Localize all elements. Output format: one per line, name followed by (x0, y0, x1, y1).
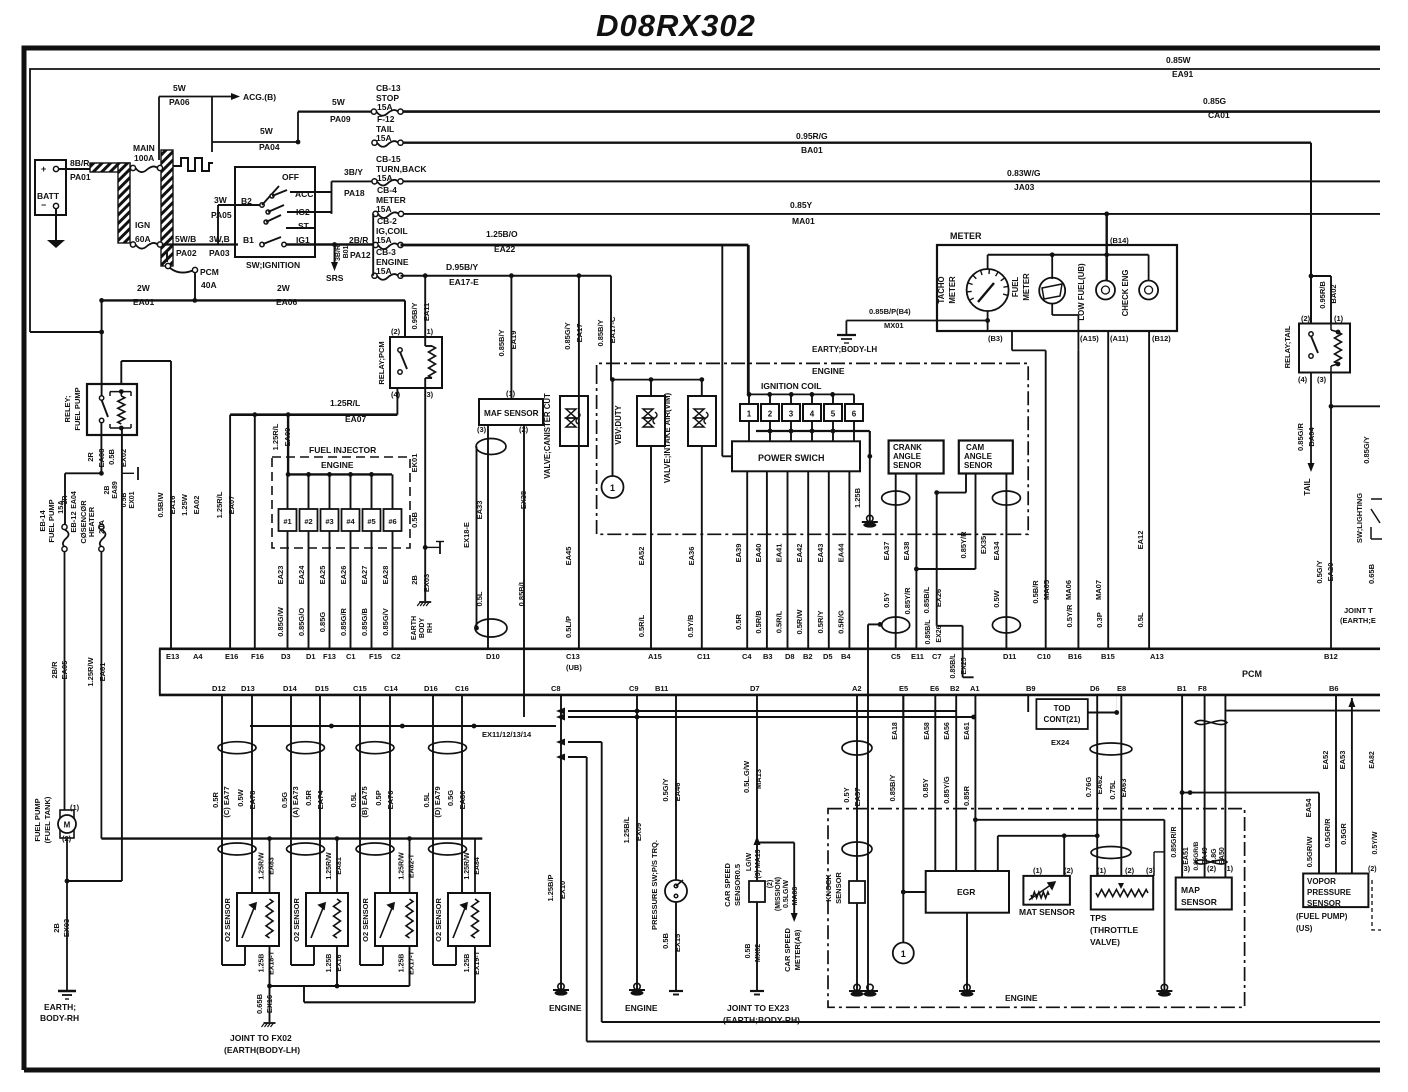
wire B6 EA52 to vapor sensor (1335, 695, 1337, 874)
wire C9 1.25B/L EX09 to engine ground (636, 695, 638, 990)
power switch box POWER SWICH (732, 441, 860, 471)
wire EA22 vertical to ignition coil (747, 245, 750, 394)
svg-text:0.5Y/B: 0.5Y/B (686, 614, 695, 638)
svg-text:EA40: EA40 (754, 544, 763, 563)
svg-text:EX18-T: EX18-T (269, 950, 276, 974)
svg-text:B15: B15 (1101, 652, 1115, 661)
svg-text:EX16: EX16 (265, 995, 274, 1013)
svg-text:1.25B: 1.25B (399, 954, 406, 973)
svg-text:0.5R/G: 0.5R/G (836, 610, 845, 634)
svg-text:EA80: EA80 (458, 791, 467, 810)
svg-text:(B14): (B14) (1110, 236, 1129, 245)
svg-text:3R: 3R (62, 496, 69, 505)
wire car speed branch to meter MA08 (757, 842, 794, 844)
wire 0.95R/G BA01 (401, 141, 1312, 143)
svg-text:EA51: EA51 (1183, 847, 1190, 865)
svg-text:EARTH: EARTH (411, 616, 418, 640)
svg-text:1.25B/P: 1.25B/P (546, 874, 555, 901)
svg-text:0.85G/Y: 0.85G/Y (563, 322, 572, 350)
wire 0.5B MX02 to ground (756, 902, 758, 991)
wire knock shield to ground (878, 622, 883, 627)
svg-text:EA28: EA28 (381, 566, 390, 585)
svg-text:2W: 2W (137, 283, 151, 293)
wire 5W PA06 to ACG (158, 97, 160, 161)
wire 1.25R/L drop to F16 (254, 415, 256, 649)
wire A15 to B16 MA06 (1077, 350, 1079, 648)
svg-text:D16: D16 (424, 684, 438, 693)
svg-text:5W/B: 5W/B (175, 234, 196, 244)
wire 0.85G CA01 (401, 110, 1381, 113)
svg-text:(EARTH;BODY-RH): (EARTH;BODY-RH) (723, 1015, 800, 1025)
twisted pair symbol top (1195, 720, 1227, 724)
svg-text:0.5G/Y: 0.5G/Y (1315, 560, 1324, 583)
wire EA17 through canister valve to C13 (578, 276, 580, 649)
svg-text:B3: B3 (763, 652, 773, 661)
svg-text:0.85W: 0.85W (1166, 55, 1192, 65)
svg-text:EX18-E: EX18-E (462, 522, 471, 548)
svg-text:(FUEL PUMP): (FUEL PUMP) (1296, 912, 1348, 921)
wire 0.83W/G JA03 (401, 180, 1381, 182)
svg-text:RH: RH (427, 623, 434, 633)
svg-text:(3): (3) (1317, 375, 1327, 384)
TOD CONT box (1036, 699, 1087, 729)
svg-text:B2: B2 (803, 652, 813, 661)
wire MAF pin2 EX38 0.85B/L (523, 425, 525, 717)
wire O2 heater ground 1.25B (409, 946, 411, 986)
svg-text:(1): (1) (1224, 864, 1234, 873)
svg-text:D10: D10 (486, 652, 500, 661)
svg-text:(3): (3) (1146, 866, 1156, 875)
svg-text:EA37: EA37 (882, 542, 891, 561)
wire IG1 output 2B/R PA12 to CB-2 (286, 243, 376, 246)
svg-text:40A: 40A (201, 280, 217, 290)
svg-text:EA02: EA02 (192, 496, 201, 515)
svg-text:A15: A15 (648, 652, 662, 661)
svg-text:RELAY;PCM: RELAY;PCM (377, 341, 386, 384)
svg-text:0.5L/P: 0.5L/P (564, 616, 573, 638)
svg-text:0.5L.G/W: 0.5L.G/W (742, 760, 751, 793)
svg-text:ENGINE: ENGINE (812, 366, 845, 376)
svg-text:0.5Y: 0.5Y (882, 592, 891, 607)
svg-text:EA17-C: EA17-C (608, 316, 617, 343)
svg-text:EA43: EA43 (816, 544, 825, 563)
svg-text:60A: 60A (135, 234, 151, 244)
wire O2 heater feed (409, 839, 411, 893)
wire junction fuel pump to bundle riser (65, 879, 70, 884)
switch PRESSURE SW;P/S TRQ (665, 880, 687, 902)
svg-text:JOINT TO EX23: JOINT TO EX23 (727, 1003, 789, 1013)
svg-text:EA09: EA09 (283, 428, 292, 447)
sensor VAPOR PRESSURE SENSOR box (1303, 874, 1368, 908)
svg-text:EA49: EA49 (1202, 847, 1209, 865)
svg-text:B6: B6 (1329, 684, 1339, 693)
svg-text:MAF SENSOR: MAF SENSOR (484, 409, 539, 418)
svg-text:METER(A8): METER(A8) (793, 929, 802, 970)
svg-text:0.5GR/W: 0.5GR/W (1305, 836, 1314, 868)
wire IG2 output (287, 211, 332, 213)
wire O2 heater feed (474, 839, 476, 893)
svg-text:C7: C7 (932, 652, 942, 661)
svg-text:(EARTH(BODY-LH): (EARTH(BODY-LH) (224, 1045, 300, 1055)
switch contacts B2 (260, 203, 264, 207)
svg-text:VBV;DUTY: VBV;DUTY (614, 404, 623, 444)
svg-text:HEATER: HEATER (87, 506, 96, 537)
svg-text:F-12: F-12 (377, 114, 395, 124)
svg-text:EB-14: EB-14 (38, 510, 47, 532)
svg-text:0.85G/B: 0.85G/B (360, 607, 369, 636)
svg-text:1.25B: 1.25B (853, 487, 862, 508)
svg-text:MAIN: MAIN (133, 143, 155, 153)
wire cam shield join EX35 (916, 568, 975, 570)
svg-text:1.25R/W: 1.25R/W (399, 852, 406, 880)
svg-text:1.25R/W: 1.25R/W (326, 852, 333, 880)
wire relay(3) EK01 0.5B down (424, 388, 426, 547)
svg-text:0.5R/B: 0.5R/B (754, 610, 763, 634)
wire 1.25B/O EA22 (401, 244, 749, 247)
svg-text:0.85G/O: 0.85G/O (297, 608, 306, 637)
wire to EGR 2 (955, 695, 957, 871)
svg-text:POWER SWICH: POWER SWICH (758, 453, 825, 463)
svg-text:EX26: EX26 (934, 589, 943, 607)
svg-text:0.5W: 0.5W (992, 589, 1001, 607)
wire 0.65B EX16 to joint ground (269, 986, 271, 1022)
svg-text:EA78: EA78 (248, 791, 257, 810)
earth tap EX02 (122, 472, 134, 474)
svg-text:0.5LG/W: 0.5LG/W (783, 880, 790, 908)
svg-text:B4: B4 (841, 652, 851, 661)
svg-text:CAM: CAM (966, 443, 985, 452)
svg-text:6: 6 (852, 410, 857, 419)
svg-text:0.85R: 0.85R (962, 785, 971, 806)
fuse EB-14 FUEL PUMP 15A (62, 524, 67, 529)
svg-text:SENSOR: SENSOR (1181, 897, 1217, 907)
wire D6 0.76G EA62 (1096, 695, 1098, 876)
svg-text:EA62: EA62 (1095, 776, 1104, 795)
wire 5W PA09 (297, 112, 299, 143)
wire 1.25R/W heater bus (101, 837, 482, 839)
svg-text:VALVE): VALVE) (1090, 937, 1120, 947)
svg-text:EA20: EA20 (1326, 563, 1335, 582)
svg-text:CHECK ENG: CHECK ENG (1121, 270, 1130, 317)
svg-text:SRS: SRS (326, 273, 344, 283)
coil common bus to ground (756, 430, 870, 432)
svg-text:2B/R: 2B/R (349, 235, 368, 245)
shield EX18-E ovals and drain (476, 439, 506, 455)
svg-text:EA04: EA04 (71, 491, 78, 509)
svg-text:3W,B: 3W,B (209, 234, 230, 244)
wire EA36 to C11 (701, 446, 703, 649)
svg-text:PA09: PA09 (330, 114, 351, 124)
svg-text:JA03: JA03 (1014, 182, 1035, 192)
wire O2 sensor signal return (221, 964, 223, 966)
sensor MAT SENSOR box (1023, 876, 1070, 905)
svg-text:2B: 2B (104, 486, 111, 495)
svg-text:EA22: EA22 (494, 244, 516, 254)
svg-text:0.85B/Y: 0.85B/Y (596, 319, 605, 346)
wire linking CB-4 and CB-3 inputs (372, 214, 374, 276)
svg-text:METER: METER (1022, 273, 1031, 301)
wire EA17-C down to engine box (610, 276, 612, 380)
svg-text:BA01: BA01 (801, 145, 823, 155)
wire TAIL output 0.85G/R BA04 (1310, 373, 1312, 467)
relay PCM internals (429, 346, 436, 378)
svg-text:EA84: EA84 (474, 857, 481, 875)
svg-text:EX38: EX38 (519, 491, 528, 509)
svg-text:PA05: PA05 (211, 210, 232, 220)
svg-text:EA83: EA83 (269, 857, 276, 875)
fuse EB-12 CONDENSER HEATER 20A (99, 524, 104, 529)
svg-text:O2 SENSOR: O2 SENSOR (434, 898, 443, 942)
svg-text:D7: D7 (750, 684, 760, 693)
svg-text:0.5B/R: 0.5B/R (1031, 580, 1040, 604)
svg-text:C8: C8 (551, 684, 561, 693)
svg-text:VOPOR: VOPOR (1307, 877, 1336, 886)
wire cam left pin EX26 0.85B/L (965, 474, 967, 493)
svg-text:METER: METER (950, 231, 982, 241)
svg-text:1: 1 (901, 949, 906, 959)
svg-text:F16: F16 (251, 652, 264, 661)
wire B12 to A13 EA12 0.5L (1148, 331, 1150, 649)
svg-text:EA25: EA25 (318, 566, 327, 585)
PCM top bus (159, 647, 1380, 650)
svg-text:0.5W: 0.5W (236, 788, 245, 806)
svg-text:(2): (2) (767, 880, 774, 889)
svg-text:FUEL PUMP: FUEL PUMP (73, 387, 82, 430)
svg-text:EX03: EX03 (62, 919, 71, 937)
svg-text:#3: #3 (325, 517, 333, 526)
svg-text:D15: D15 (315, 684, 329, 693)
svg-text:1.25B/O: 1.25B/O (486, 229, 518, 239)
wire 1.25R/L EA09 to injector bus (287, 415, 289, 475)
svg-text:20A: 20A (97, 520, 106, 534)
ground earth body LH (837, 334, 856, 336)
svg-text:EX19-T: EX19-T (474, 950, 481, 974)
svg-text:MAT SENSOR: MAT SENSOR (1019, 907, 1075, 917)
wire battery negative to ground (55, 208, 57, 240)
wire 3W PA05 into switch (218, 204, 260, 206)
svg-text:SENSOR: SENSOR (834, 872, 843, 904)
svg-text:1: 1 (610, 483, 615, 493)
svg-text:EA63: EA63 (1119, 779, 1128, 798)
svg-text:C5: C5 (891, 652, 901, 661)
svg-text:D08RX302: D08RX302 (596, 8, 756, 43)
svg-text:4: 4 (810, 410, 815, 419)
svg-text:PRESSURE SW;P/S TRQ.: PRESSURE SW;P/S TRQ. (650, 840, 659, 930)
svg-text:0.85B/L: 0.85B/L (925, 619, 932, 645)
O2 sensor box (306, 893, 348, 946)
O2 sensor box (237, 893, 279, 946)
svg-text:M: M (64, 821, 71, 830)
svg-text:EX16: EX16 (336, 954, 343, 971)
svg-text:O2 SENSOR: O2 SENSOR (223, 898, 232, 942)
svg-text:1.25R/W: 1.25R/W (259, 852, 266, 880)
svg-text:5W: 5W (173, 83, 187, 93)
svg-text:(C) EA77: (C) EA77 (222, 786, 231, 817)
svg-text:EX10: EX10 (558, 881, 567, 899)
wire relay(3) 0.5G/Y EA20 to B12 (1330, 373, 1332, 649)
svg-text:(B3): (B3) (988, 334, 1003, 343)
svg-text:MA06: MA06 (1064, 580, 1073, 600)
svg-text:0.65B: 0.65B (255, 993, 264, 1014)
svg-text:TPS: TPS (1090, 913, 1107, 923)
svg-text:EA39: EA39 (734, 544, 743, 563)
svg-text:ENGINE: ENGINE (625, 1003, 658, 1013)
svg-text:PCM: PCM (1242, 669, 1262, 679)
fuel injector dashed box ENGINE (272, 457, 410, 548)
wire 5W PA04 bus (211, 97, 213, 153)
svg-text:C15: C15 (353, 684, 367, 693)
svg-text:0.85Y: 0.85Y (790, 200, 813, 210)
svg-text:15A: 15A (376, 133, 392, 143)
O2 sensor column (359, 695, 361, 965)
svg-text:A2: A2 (852, 684, 862, 693)
svg-text:MAP: MAP (1181, 885, 1200, 895)
svg-text:EX09: EX09 (634, 823, 643, 841)
svg-text:B01: B01 (343, 245, 350, 258)
svg-text:0.5B: 0.5B (661, 932, 670, 948)
svg-text:VALVE;CANISTER CUT: VALVE;CANISTER CUT (543, 393, 552, 479)
svg-text:(2): (2) (1301, 314, 1311, 323)
svg-text:C11: C11 (697, 652, 710, 661)
svg-text:1: 1 (747, 410, 752, 419)
svg-text:PCM: PCM (200, 267, 219, 277)
relay RELAY;PCM box (390, 337, 442, 388)
svg-text:PA12: PA12 (350, 250, 371, 260)
svg-text:FUEL PUMP: FUEL PUMP (33, 798, 42, 841)
svg-text:C1: C1 (346, 652, 356, 661)
wire O2 heater feed (269, 839, 271, 893)
svg-text:#4: #4 (346, 517, 355, 526)
svg-text:1.25B: 1.25B (326, 954, 333, 973)
svg-text:(4): (4) (1298, 375, 1308, 384)
knock sensor box KNOCK SENSOR (849, 881, 865, 903)
svg-text:EA82-T: EA82-T (409, 853, 416, 878)
svg-text:0.85G/Y: 0.85G/Y (1362, 436, 1371, 464)
svg-text:3B/Y: 3B/Y (344, 167, 363, 177)
battery BATT (35, 160, 66, 215)
svg-text:BODY-RH: BODY-RH (40, 1013, 79, 1023)
svg-text:0.5Y/W: 0.5Y/W (1372, 831, 1379, 854)
svg-text:EA19: EA19 (509, 331, 518, 350)
svg-text:EA76: EA76 (386, 791, 395, 810)
svg-text:EA08: EA08 (97, 449, 106, 468)
svg-text:EA23: EA23 (276, 566, 285, 585)
wire 0.95B/Y EA11 (424, 276, 426, 337)
svg-text:EA44: EA44 (836, 543, 845, 563)
wire EA53 0.5GR with up arrow (1226, 710, 1380, 712)
svg-text:0.75L: 0.75L (1108, 780, 1117, 800)
EGR box (926, 871, 1009, 913)
svg-text:EX26: EX26 (936, 625, 943, 642)
wire bundle drop to bottom line 1 (601, 742, 603, 1022)
engine dashed box (sensors) (828, 809, 1245, 1008)
svg-text:EX02: EX02 (119, 449, 128, 467)
svg-text:OFF: OFF (282, 172, 299, 182)
svg-text:MA08: MA08 (792, 887, 799, 906)
wire MAT TPS link bus (998, 835, 1097, 837)
fusible link zigzag element (173, 158, 213, 171)
sensor MAP SENSOR wires (1181, 695, 1183, 878)
relay RELAY;TAIL box (1299, 324, 1350, 373)
svg-text:PA04: PA04 (259, 142, 280, 152)
svg-text:0.5L: 0.5L (1136, 612, 1145, 627)
svg-text:EARTH;: EARTH; (44, 1002, 76, 1012)
svg-text:D14: D14 (283, 684, 298, 693)
svg-text:1.25B/L: 1.25B/L (622, 816, 631, 843)
wire EA52 to A15 (650, 446, 652, 649)
wire B9 down (1027, 695, 1029, 712)
wire fuel pump to earth body RH (66, 838, 68, 991)
shield oval EX24 (1090, 743, 1132, 755)
svg-text:C9: C9 (629, 684, 639, 693)
svg-text:0.5L: 0.5L (422, 792, 431, 807)
svg-text:ENGINE: ENGINE (321, 460, 354, 470)
svg-text:EA91: EA91 (1172, 69, 1194, 79)
svg-text:SW;IGNITION: SW;IGNITION (246, 260, 300, 270)
ground earth body RH (relay) (419, 601, 431, 603)
svg-text:EA26: EA26 (339, 566, 348, 585)
svg-text:FUEL PUMP: FUEL PUMP (47, 499, 56, 542)
fuse PCM 40A (166, 250, 168, 262)
svg-text:MA05: MA05 (1042, 580, 1051, 600)
svg-text:EA36: EA36 (687, 547, 696, 566)
svg-text:D.95B/Y: D.95B/Y (446, 262, 478, 272)
svg-text:0.85G/V: 0.85G/V (381, 608, 390, 636)
svg-text:CB-3: CB-3 (376, 247, 396, 257)
relay RELAY;FUEL PUMP box (87, 384, 137, 435)
wire O2 sensor signal return (359, 964, 361, 966)
svg-text:B2: B2 (950, 684, 960, 693)
wire A1 to EGR / TPS (974, 695, 976, 871)
svg-text:CAR SPEED: CAR SPEED (783, 928, 792, 972)
svg-text:EX03: EX03 (422, 574, 431, 592)
svg-text:100A: 100A (134, 153, 154, 163)
svg-text:#2: #2 (304, 517, 312, 526)
wire 2W EA01 / 2W EA06 bus (100, 299, 405, 301)
svg-text:(2): (2) (1125, 866, 1135, 875)
svg-text:E8: E8 (1117, 684, 1126, 693)
svg-text:EA52: EA52 (637, 547, 646, 566)
svg-text:EA05: EA05 (60, 661, 69, 680)
wire 2B EX03 to earth body RH (424, 547, 426, 601)
MAF sensor box (479, 399, 543, 425)
svg-text:0.85Y/R: 0.85Y/R (959, 531, 968, 559)
svg-text:EA50: EA50 (1219, 847, 1226, 865)
svg-text:CB-2: CB-2 (377, 216, 397, 226)
svg-text:B9: B9 (1026, 684, 1036, 693)
svg-text:0.85B/P(B4): 0.85B/P(B4) (869, 307, 911, 316)
svg-text:ENGINE: ENGINE (549, 1003, 582, 1013)
svg-text:EA17-E: EA17-E (449, 277, 479, 287)
wire EA07 drop to E16 (229, 415, 231, 649)
svg-text:0.85G/W: 0.85G/W (276, 606, 285, 637)
svg-text:JOINT T: JOINT T (1344, 606, 1373, 615)
svg-text:0.95B/Y: 0.95B/Y (410, 302, 419, 329)
wire MAP junction to vapor sensor (1180, 790, 1185, 795)
wire cam EA34 0.5W to D11 (1005, 474, 1007, 649)
svg-text:ENGINE: ENGINE (1005, 993, 1038, 1003)
svg-text:+: + (41, 164, 46, 174)
svg-text:EGR: EGR (957, 887, 975, 897)
wire MAT2 to link bus (1063, 836, 1065, 876)
wire 0.85B/Y EA19 (510, 276, 512, 399)
svg-text:0.3P: 0.3P (1095, 612, 1104, 627)
svg-text:PA01: PA01 (70, 172, 91, 182)
svg-text:0.85GR/B: 0.85GR/B (1193, 841, 1200, 870)
svg-text:EX35: EX35 (979, 536, 988, 554)
svg-text:5W: 5W (332, 97, 346, 107)
svg-text:(A15): (A15) (1080, 334, 1099, 343)
